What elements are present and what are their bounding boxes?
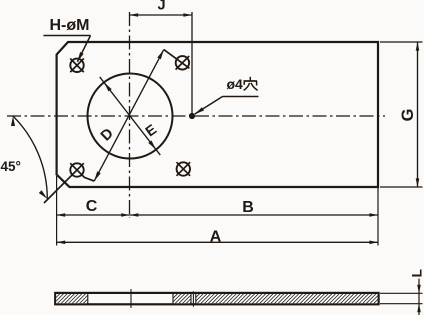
extension line right edge down	[377, 187, 379, 246]
45 degree arc	[13, 116, 47, 199]
side view centerline tick phi4	[192, 291, 194, 306]
hole TL circle	[70, 59, 83, 72]
side view hatch right	[196, 294, 378, 303]
side view hatch middle	[173, 294, 191, 303]
svg-text:A: A	[210, 229, 222, 246]
svg-text:G: G	[399, 109, 417, 122]
arrow C right	[121, 213, 130, 217]
hole BL circle	[70, 163, 83, 176]
plate outline	[57, 42, 378, 187]
hole TL cross	[70, 59, 84, 73]
arrow L top	[417, 285, 421, 294]
side view hole walls	[88, 293, 196, 303]
kanji ana (hole) drawn strokes	[244, 77, 258, 91]
leader phi4 underline	[223, 96, 259, 98]
hole TR circle	[176, 56, 189, 69]
extension line left edge down	[56, 176, 58, 246]
leader H-phiM diagonal	[77, 36, 90, 62]
leader H-phiM underline	[43, 35, 90, 37]
node phi4 hole point	[189, 113, 195, 119]
arrow G bottom	[416, 178, 420, 187]
leader phi4 diagonal	[195, 97, 223, 115]
arrow C left	[57, 213, 66, 217]
arrow leader H	[77, 52, 83, 62]
G dimension line	[417, 42, 419, 187]
svg-text:E: E	[143, 122, 160, 141]
A dimension line	[57, 241, 378, 243]
dimension E line	[94, 50, 164, 182]
svg-text:C: C	[86, 198, 98, 215]
dimension D line	[100, 77, 161, 155]
arrow B left	[130, 213, 139, 217]
large circle D	[88, 74, 173, 159]
hole BR circle	[177, 162, 190, 175]
svg-text:D: D	[98, 125, 117, 144]
hole BR cross	[177, 162, 191, 176]
svg-text:L: L	[410, 269, 424, 277]
horizontal centerline	[7, 115, 385, 117]
G dimension extension bottom	[380, 186, 423, 188]
L dimension extensions	[380, 292, 423, 294]
hole TR cross	[164, 50, 190, 70]
svg-text:45°: 45°	[1, 159, 21, 174]
arrow E upright	[157, 50, 164, 60]
arrow L bottom	[417, 304, 421, 313]
arrow leader phi4	[195, 107, 205, 114]
side view centerline tick main	[130, 289, 132, 308]
arrow E downleft	[94, 171, 101, 181]
L dimension line	[418, 279, 420, 315]
arrow J right	[183, 13, 192, 17]
arrow D upleft	[104, 82, 112, 91]
vertical centerline	[129, 12, 131, 218]
G dimension extension top	[380, 41, 423, 43]
arrow G top	[416, 42, 420, 51]
side view body	[55, 293, 378, 304]
svg-text:J: J	[157, 0, 165, 14]
arrow arc top	[11, 116, 15, 126]
side view hatch left	[56, 294, 88, 303]
svg-text:H-øM: H-øM	[50, 17, 90, 34]
wire: phi4 hole position line x=192	[191, 12, 193, 116]
arrow A left	[57, 241, 66, 245]
arrow D downright	[148, 141, 156, 150]
hole BL cross (one arm extended to 45deg reference)	[44, 163, 94, 203]
svg-text:ø4: ø4	[227, 76, 244, 92]
arrow B right	[369, 213, 378, 217]
arrow A right	[369, 241, 378, 245]
arrow J left	[130, 13, 139, 17]
arrow arc bottom	[39, 190, 48, 199]
C B dimension line	[57, 214, 378, 216]
J dimension line	[130, 14, 193, 16]
svg-text:B: B	[242, 199, 254, 216]
